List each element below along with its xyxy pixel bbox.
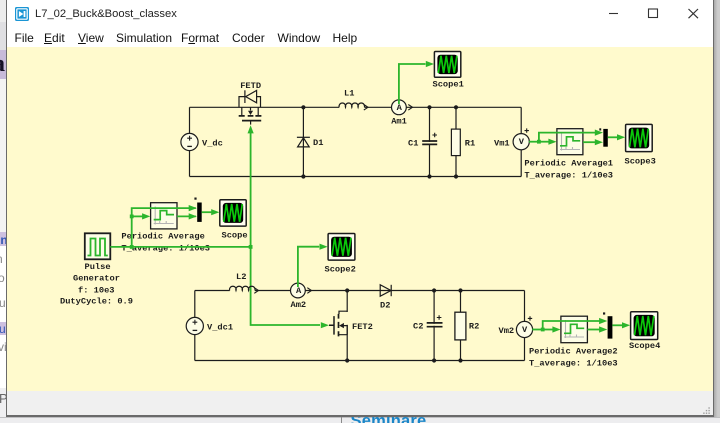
node D1 top junction xyxy=(301,105,305,109)
arrow into FETD gate xyxy=(248,125,254,133)
svg-text:Periodic Average1: Periodic Average1 xyxy=(524,159,613,169)
svg-text:DutyCycle: 0.9: DutyCycle: 0.9 xyxy=(60,297,133,307)
signal wire Vm2 out xyxy=(532,329,543,331)
signal wire Vm1 to Periodic Average1 xyxy=(539,141,549,143)
scope Scope xyxy=(220,200,246,226)
diode D2 xyxy=(380,285,391,296)
svg-text:FETD: FETD xyxy=(240,81,261,91)
inductor L2 xyxy=(230,286,259,293)
resistor R2 xyxy=(455,312,466,340)
svg-text:D2: D2 xyxy=(380,301,390,311)
arrow into mux M1 input 2 xyxy=(595,139,603,145)
mux M1 xyxy=(599,128,608,146)
wire R2 branch xyxy=(460,291,462,361)
arrow into Scope4 xyxy=(622,322,630,328)
svg-text:Periodic Average2: Periodic Average2 xyxy=(529,347,618,357)
mux M3 xyxy=(603,312,612,338)
signal wire Periodic Average1 to mux M1 xyxy=(583,141,596,143)
window controls xyxy=(600,0,712,28)
arrow into mux M1 input 1 xyxy=(595,130,603,136)
node C1 top junction xyxy=(427,105,431,109)
node C1 bottom junction xyxy=(427,174,431,178)
signal wire mux M3 to Scope4 xyxy=(612,324,622,326)
svg-text:Vm2: Vm2 xyxy=(499,326,515,336)
svg-text:Scope1: Scope1 xyxy=(433,80,464,90)
arrow into Scope1 xyxy=(426,61,434,67)
arrow into FET2 gate xyxy=(321,322,329,328)
node C2 bottom junction xyxy=(432,358,436,362)
signal wire mux M2 to Scope xyxy=(202,211,212,213)
node R1 bottom junction xyxy=(454,174,458,178)
node FET2 source junction xyxy=(345,358,349,362)
arrow into Periodic Average2 xyxy=(552,326,560,332)
scope Scope4 xyxy=(631,312,658,340)
svg-text:R1: R1 xyxy=(465,139,475,149)
junction on Vm2 signal xyxy=(541,328,545,332)
svg-text:Am1: Am1 xyxy=(391,117,407,127)
arrow into mux M3 input 1 xyxy=(599,318,607,324)
menu bar xyxy=(7,28,713,47)
capacitor C1 xyxy=(422,133,437,145)
signal wire Periodic Average2 to mux M3 xyxy=(587,329,599,331)
junction gate line at pulse output xyxy=(249,245,253,249)
signal wire Am1 to Scope1 xyxy=(399,64,426,104)
svg-text:FET2: FET2 xyxy=(352,322,373,332)
svg-text:Scope2: Scope2 xyxy=(325,265,356,275)
strip below window: underlying page with Seminare link xyxy=(0,417,720,423)
signal wire branch up from pulse line xyxy=(132,208,196,247)
signal wire gate drive vertical xyxy=(251,133,320,325)
svg-text:Scope: Scope xyxy=(222,231,248,241)
svg-text:T_average: 1/10e3: T_average: 1/10e3 xyxy=(121,243,210,253)
svg-text:T_average: 1/10e3: T_average: 1/10e3 xyxy=(529,359,618,369)
scope Scope1 xyxy=(434,52,460,78)
node FET2 drain junction xyxy=(345,288,349,292)
arrow into Periodic Average xyxy=(142,213,150,219)
mosfet FETD body xyxy=(239,90,262,124)
svg-text:Scope3: Scope3 xyxy=(625,157,656,167)
svg-text:L1: L1 xyxy=(344,89,354,99)
signal wire Vm2 branch up to mux M3 xyxy=(543,321,600,330)
wire bottom rail buck xyxy=(190,176,522,178)
junction pulse output xyxy=(130,245,134,249)
svg-text:Generator: Generator xyxy=(73,274,120,284)
arrow into mux M3 input 2 xyxy=(599,326,607,332)
underlying web page left sliver xyxy=(0,0,6,423)
voltmeter Vm2 xyxy=(516,316,532,337)
wire C1 branch xyxy=(429,107,431,176)
svg-text:D1: D1 xyxy=(313,138,323,148)
signal wire Vm2 to Periodic Average2 xyxy=(543,329,553,331)
wire FET2 branch xyxy=(346,291,348,361)
mosfet FETD arrow xyxy=(248,111,253,115)
arrow into Periodic Average1 xyxy=(548,139,556,145)
junction pulse line split xyxy=(130,215,134,219)
wire R1 branch xyxy=(455,107,457,176)
wire V_dc left branch xyxy=(189,107,191,176)
junction on Vm1 signal xyxy=(537,140,541,144)
svg-text:T_average: 1/10e3: T_average: 1/10e3 xyxy=(524,171,613,181)
node R2 top junction xyxy=(458,288,462,292)
mux M2 xyxy=(194,198,201,222)
arrow into Scope xyxy=(211,209,219,215)
block Periodic Average1 xyxy=(557,129,583,155)
voltage source V_dc xyxy=(181,133,198,150)
PLECS app icon xyxy=(15,7,29,21)
svg-text:L2: L2 xyxy=(236,272,246,282)
signal wire Vm1 branch up to mux M1 xyxy=(539,133,596,142)
mosfet FET2 body xyxy=(329,311,347,336)
arrow into mux M2 input 1 xyxy=(189,205,197,211)
ammeter Am2 xyxy=(291,283,312,298)
diode D1 xyxy=(297,137,310,147)
title bar xyxy=(7,0,713,28)
wire top rail boost xyxy=(195,290,525,292)
svg-text:C2: C2 xyxy=(413,322,423,332)
arrow into mux M2 input 2 xyxy=(189,213,197,219)
svg-text:V_dc1: V_dc1 xyxy=(207,323,233,333)
svg-text:Vm1: Vm1 xyxy=(494,138,510,148)
resistor R1 xyxy=(451,129,460,156)
wire V_dc1 left branch xyxy=(194,291,196,361)
signal wire branch to Periodic Average xyxy=(132,215,143,217)
node C2 top junction xyxy=(432,288,436,292)
svg-text:Periodic Average: Periodic Average xyxy=(121,231,204,241)
capacitor C2 xyxy=(427,315,443,327)
scope Scope2 xyxy=(328,234,355,261)
wire Vm2 branch xyxy=(524,291,526,361)
wire bottom rail boost xyxy=(195,360,525,362)
arrow into Scope2 xyxy=(320,244,328,250)
window frame xyxy=(6,0,8,417)
arrow into Scope3 xyxy=(617,134,625,140)
svg-text:R2: R2 xyxy=(469,322,479,332)
ammeter Am1 xyxy=(392,100,413,115)
svg-text:Scope4: Scope4 xyxy=(629,341,660,351)
signal wire Periodic Average to mux M2 xyxy=(177,215,196,217)
signal wire mux M1 to Scope3 xyxy=(608,136,618,138)
svg-text:C1: C1 xyxy=(408,139,418,149)
block Periodic Average xyxy=(151,203,177,229)
signal wire Am2 to Scope2 xyxy=(298,247,319,287)
inductor L1 xyxy=(339,103,368,110)
wire D1 branch xyxy=(302,107,304,176)
svg-text:Am2: Am2 xyxy=(291,300,307,310)
block Periodic Average2 xyxy=(561,316,588,343)
schematic SVG placeholder xyxy=(7,47,713,391)
node R2 bottom junction xyxy=(458,358,462,362)
mosfet FET2 arrow xyxy=(339,323,344,328)
svg-text:Pulse: Pulse xyxy=(85,262,111,272)
node D1 bottom junction xyxy=(301,174,305,178)
signal wire Vm1 out xyxy=(529,141,539,143)
svg-text:A: A xyxy=(296,286,302,296)
wire Vm1 branch xyxy=(520,107,522,176)
voltmeter Vm1 xyxy=(513,128,529,149)
voltage source V_dc1 xyxy=(186,317,203,334)
svg-text:V: V xyxy=(522,325,528,335)
status bar xyxy=(7,391,713,415)
svg-text:V: V xyxy=(519,137,525,147)
canvas xyxy=(7,47,713,391)
svg-text:f: 10e3: f: 10e3 xyxy=(78,285,115,295)
svg-text:V_dc: V_dc xyxy=(202,139,223,149)
node R1 top junction xyxy=(454,105,458,109)
svg-text:A: A xyxy=(397,103,403,113)
wire top rail buck xyxy=(190,106,522,108)
area right of window xyxy=(714,0,720,423)
signal wire Pulse Generator output xyxy=(110,246,250,248)
wire C2 branch xyxy=(433,291,435,361)
block Pulse Generator xyxy=(85,233,111,259)
scope Scope3 xyxy=(626,124,653,151)
